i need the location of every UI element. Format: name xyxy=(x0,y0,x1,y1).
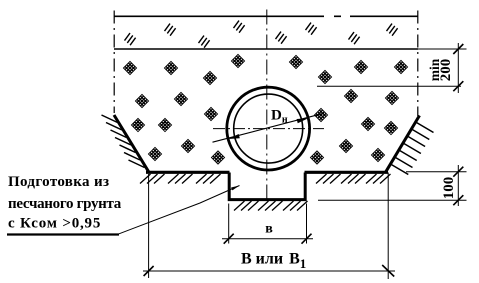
sand symbol 7 xyxy=(200,61,220,95)
в dim extension left xyxy=(228,204,230,244)
sand symbol 11 xyxy=(341,79,361,113)
bedding underside hatch group 2 xyxy=(258,201,283,211)
sand symbol 3 xyxy=(228,44,248,78)
sand symbol 21 xyxy=(145,137,165,171)
sand symbol 6 xyxy=(391,50,411,84)
min200 tick bottom xyxy=(453,81,463,91)
left slope hatching xyxy=(102,115,145,168)
svg-text:В или В1: В или В1 xyxy=(241,251,306,272)
bedding underside hatch group 1 xyxy=(234,201,259,211)
sand symbol 13 xyxy=(201,97,221,131)
right slope line xyxy=(386,116,420,173)
left slope line xyxy=(114,115,149,172)
B dim extension left xyxy=(148,174,150,278)
sand symbol 24 xyxy=(368,138,388,172)
min200 tick top xyxy=(453,44,463,54)
backfill hatch cluster 1 xyxy=(125,33,136,45)
sand symbol 9 xyxy=(132,84,152,118)
backfill hatch cluster 4 xyxy=(234,21,245,33)
100 dim extension bottom xyxy=(318,199,467,201)
B dimension line xyxy=(143,270,395,272)
100 dim extension top xyxy=(406,171,467,173)
B tick left xyxy=(144,266,154,276)
svg-text:200: 200 xyxy=(438,59,454,82)
svg-text:Подготовка из: Подготовка из xyxy=(8,174,109,190)
в dim extension right xyxy=(306,204,308,244)
в tick left xyxy=(224,234,234,244)
bottom hatch group 1 (left) xyxy=(140,174,165,184)
bedding notch rectangle xyxy=(229,173,305,200)
trench bottom left segment xyxy=(146,171,230,174)
pipe slanted diameter dimension line xyxy=(213,113,325,142)
left trench wall (dash-dot) xyxy=(113,11,115,114)
right trench wall (dash-dot) xyxy=(417,11,419,117)
pipe inner circle xyxy=(234,94,303,163)
bedding underside hatch group 3 xyxy=(283,201,308,211)
sand symbol 23 xyxy=(307,141,327,175)
backfill hatch cluster 8 xyxy=(387,24,398,36)
B tick right xyxy=(382,265,394,277)
backfill hatch cluster 3 xyxy=(199,36,210,48)
100 dimension line xyxy=(457,165,459,206)
sand symbol 22 xyxy=(208,141,228,175)
bottom hatch group 3 (left) xyxy=(196,174,221,184)
pipe horizontal axis line (dash-dot) xyxy=(213,128,324,130)
pipe vertical center line (dash-dot) xyxy=(266,10,268,203)
sand symbol 17 xyxy=(358,107,378,141)
sand top extension line to dimension xyxy=(418,48,467,50)
pipe outer circle xyxy=(227,87,310,170)
trench bottom right segment xyxy=(305,171,389,174)
backfill hatch cluster 6 xyxy=(306,23,317,35)
diameter arrow left xyxy=(228,134,240,141)
в dimension line xyxy=(222,238,313,240)
sand symbol 1 xyxy=(120,51,140,85)
leader arrowhead xyxy=(231,184,240,190)
backfill hatch cluster 5 xyxy=(276,32,287,44)
bottom hatch group 5 (right) xyxy=(341,174,366,184)
pipe top level line xyxy=(317,85,461,87)
sand symbol 5 xyxy=(351,50,371,84)
note leader line xyxy=(119,186,240,234)
sand layer top line xyxy=(114,48,418,50)
diameter arrow right xyxy=(297,116,309,123)
svg-text:100: 100 xyxy=(441,177,457,200)
sand symbol 4 xyxy=(286,45,306,79)
в tick right xyxy=(302,234,312,244)
sand symbol 15 xyxy=(128,108,148,142)
sand symbol 12 xyxy=(382,81,402,115)
svg-text:с Ксом >0,95: с Ксом >0,95 xyxy=(8,216,101,232)
100 tick top xyxy=(453,167,463,177)
bottom hatch group 6 (right) xyxy=(366,174,391,184)
sand symbol 19 xyxy=(178,129,198,163)
note underline xyxy=(7,233,119,235)
sand symbol 10 xyxy=(171,82,191,116)
B dim extension right xyxy=(387,173,389,280)
backfill hatch cluster 7 xyxy=(349,32,360,44)
100 tick bottom xyxy=(453,195,463,205)
svg-text:в: в xyxy=(265,222,273,237)
bottom hatch group 2 (left) xyxy=(168,174,193,184)
sand symbol 14 xyxy=(311,98,331,132)
right slope hatching xyxy=(391,123,433,175)
sand symbol 2 xyxy=(161,51,181,85)
svg-text:Dн: Dн xyxy=(271,108,288,126)
sand symbol 8 xyxy=(315,60,335,94)
sand symbol 16 xyxy=(155,108,175,142)
trench top ground line xyxy=(114,15,418,17)
bottom hatch group 4 (right) xyxy=(316,174,341,184)
min200 dimension line xyxy=(457,43,459,93)
backfill hatch cluster 2 xyxy=(165,24,176,36)
sand symbol 20 xyxy=(336,129,356,163)
svg-text:песчаного грунта: песчаного грунта xyxy=(8,196,122,212)
sand symbol 18 xyxy=(381,111,401,145)
